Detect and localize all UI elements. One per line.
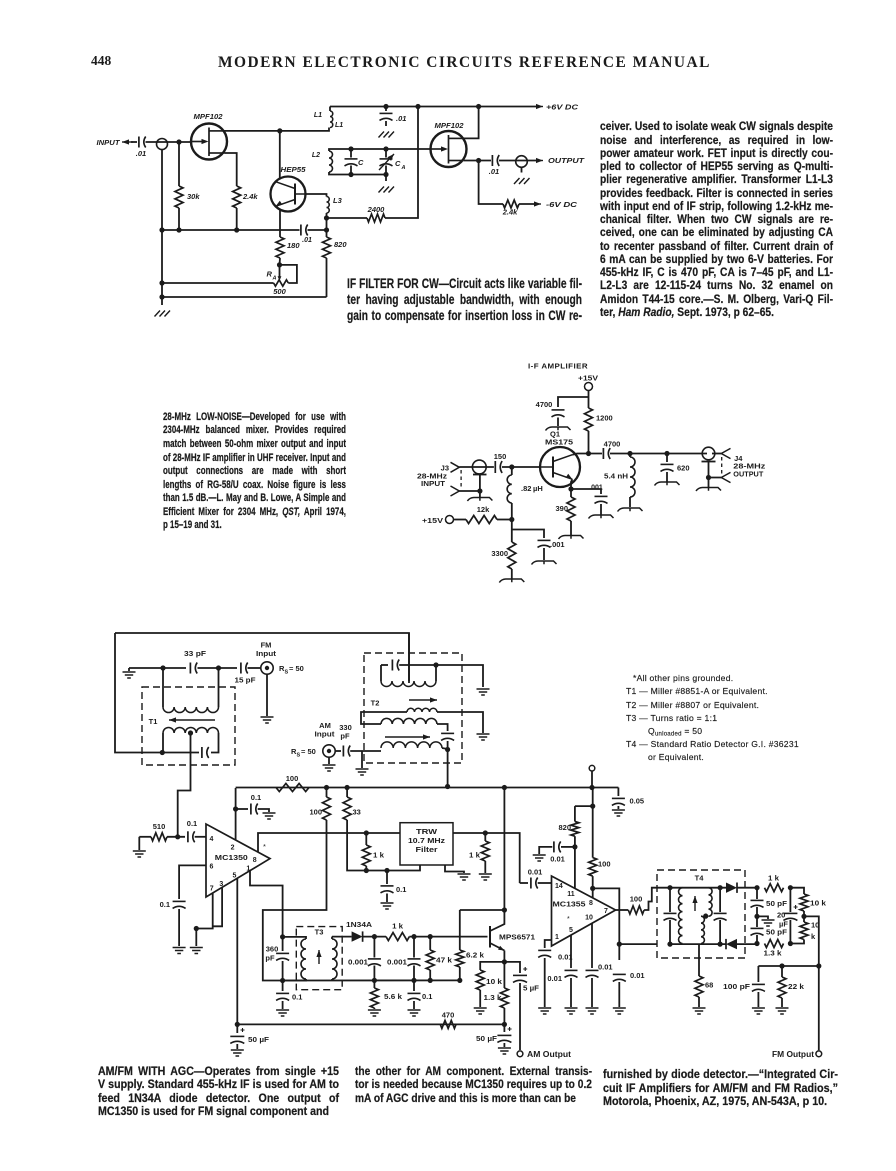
svg-text:33: 33 <box>353 808 361 817</box>
svg-text:10 k: 10 k <box>486 977 503 986</box>
svg-text:1 k: 1 k <box>768 874 780 883</box>
svg-text:µH: µH <box>533 484 543 493</box>
svg-text:4: 4 <box>210 836 214 843</box>
svg-text:11: 11 <box>567 891 575 898</box>
svg-text:S: S <box>285 670 289 676</box>
svg-text:Filter: Filter <box>416 845 438 854</box>
svg-text:A: A <box>401 165 406 171</box>
svg-text:3: 3 <box>219 881 223 888</box>
svg-text:S: S <box>297 753 301 759</box>
svg-text:7: 7 <box>210 886 214 893</box>
svg-text:C: C <box>395 159 401 168</box>
svg-text:7: 7 <box>604 908 608 915</box>
svg-text:OUTPUT: OUTPUT <box>548 158 585 165</box>
svg-text:2.4k: 2.4k <box>502 208 518 217</box>
svg-text:5 µF: 5 µF <box>523 984 539 993</box>
svg-text:1.3 k: 1.3 k <box>764 949 783 958</box>
svg-text:L1: L1 <box>314 112 322 119</box>
svg-text:2.4k: 2.4k <box>242 192 258 201</box>
svg-text:2400: 2400 <box>367 205 386 214</box>
svg-text:1 k: 1 k <box>373 851 385 860</box>
svg-text:MPF102: MPF102 <box>435 121 465 130</box>
svg-text:50 µF: 50 µF <box>248 1035 269 1044</box>
svg-text:*: * <box>567 916 570 923</box>
svg-text:1.3 k: 1.3 k <box>484 993 503 1002</box>
svg-text:100 pF: 100 pF <box>723 982 750 991</box>
svg-text:MC1350: MC1350 <box>215 853 248 862</box>
svg-text:0.01: 0.01 <box>528 868 543 877</box>
svg-text:= 50: = 50 <box>289 664 304 673</box>
svg-text:MS175: MS175 <box>545 438 573 447</box>
svg-text:µF: µF <box>779 920 788 929</box>
svg-text:Input: Input <box>256 649 277 658</box>
svg-text:2: 2 <box>231 845 235 852</box>
svg-text:+15V: +15V <box>578 374 598 383</box>
svg-text:510: 510 <box>153 822 166 831</box>
svg-text:MPS6571: MPS6571 <box>499 933 535 942</box>
svg-text:5: 5 <box>232 873 236 880</box>
svg-text:.82: .82 <box>521 484 531 493</box>
svg-text:5.4 nH: 5.4 nH <box>604 472 628 481</box>
svg-text:= 50: = 50 <box>301 747 316 756</box>
svg-text:AM Output: AM Output <box>527 1050 571 1059</box>
svg-text:OUTPUT: OUTPUT <box>733 470 763 479</box>
svg-text:0.01: 0.01 <box>598 963 613 972</box>
svg-text:T3: T3 <box>315 928 324 937</box>
svg-text:INPUT: INPUT <box>421 479 445 488</box>
svg-text:1: 1 <box>555 934 559 941</box>
svg-text:8: 8 <box>589 900 593 907</box>
svg-text:15 pF: 15 pF <box>235 676 256 685</box>
svg-text:+15V: +15V <box>422 516 443 525</box>
svg-text:.01: .01 <box>302 237 312 244</box>
svg-text:INPUT: INPUT <box>97 138 121 147</box>
svg-text:0.001: 0.001 <box>348 958 368 967</box>
svg-text:.001: .001 <box>589 485 603 492</box>
svg-text:T4: T4 <box>695 874 705 883</box>
svg-text:T1: T1 <box>149 717 158 726</box>
svg-text:MPF102: MPF102 <box>194 112 224 121</box>
svg-text:k: k <box>811 932 816 941</box>
svg-text:Input: Input <box>315 730 336 739</box>
svg-text:0.1: 0.1 <box>292 993 302 1002</box>
svg-text:.01: .01 <box>396 114 406 123</box>
svg-text:10: 10 <box>585 915 593 922</box>
svg-text:100: 100 <box>598 860 611 869</box>
svg-text:150: 150 <box>494 452 507 461</box>
svg-text:L3: L3 <box>333 196 343 205</box>
svg-text:-6V DC: -6V DC <box>546 202 578 209</box>
svg-text:5.6 k: 5.6 k <box>384 992 403 1001</box>
svg-text:33 pF: 33 pF <box>184 649 206 658</box>
svg-text:.01: .01 <box>489 167 499 176</box>
svg-text:10.7 MHz: 10.7 MHz <box>408 836 445 845</box>
svg-text:50 pF: 50 pF <box>766 899 787 908</box>
svg-text:100: 100 <box>286 774 299 783</box>
svg-text:.001: .001 <box>550 540 565 549</box>
svg-text:.01: .01 <box>136 149 146 158</box>
svg-text:I-F AMPLIFIER: I-F AMPLIFIER <box>528 362 588 371</box>
svg-text:4700: 4700 <box>604 440 621 449</box>
svg-text:+6V DC: +6V DC <box>546 105 579 112</box>
svg-text:0.01: 0.01 <box>550 855 565 864</box>
svg-text:HEP55: HEP55 <box>281 165 307 174</box>
svg-text:500: 500 <box>273 287 286 296</box>
svg-text:FM Output: FM Output <box>772 1050 814 1059</box>
svg-text:0.1: 0.1 <box>396 885 406 894</box>
svg-text:*: * <box>263 842 266 851</box>
svg-text:50 µF: 50 µF <box>476 1034 497 1043</box>
svg-text:5: 5 <box>569 927 573 934</box>
svg-text:470: 470 <box>442 1011 455 1020</box>
svg-text:100: 100 <box>309 808 322 817</box>
svg-text:1 k: 1 k <box>392 921 404 930</box>
svg-text:820: 820 <box>334 240 347 249</box>
svg-text:0.01: 0.01 <box>630 971 645 980</box>
svg-text:22 k: 22 k <box>788 982 805 991</box>
svg-text:4700: 4700 <box>536 400 553 409</box>
svg-text:A: A <box>272 276 277 282</box>
svg-text:0.001: 0.001 <box>387 958 407 967</box>
svg-text:1 k: 1 k <box>469 851 481 860</box>
svg-text:1200: 1200 <box>596 414 613 423</box>
svg-text:TRW: TRW <box>416 827 437 836</box>
svg-text:L1: L1 <box>335 122 343 129</box>
svg-text:0.1: 0.1 <box>160 900 170 909</box>
svg-text:T2: T2 <box>371 699 380 708</box>
svg-text:30k: 30k <box>187 192 200 201</box>
svg-text:MC1355: MC1355 <box>553 900 586 909</box>
svg-text:390: 390 <box>555 504 568 513</box>
svg-text:0.01: 0.01 <box>547 974 562 983</box>
svg-text:68: 68 <box>705 981 713 990</box>
svg-text:10 k: 10 k <box>810 899 827 908</box>
svg-text:pF: pF <box>340 732 350 741</box>
svg-text:360: 360 <box>266 945 279 954</box>
svg-text:100: 100 <box>630 895 643 904</box>
svg-text:L2: L2 <box>312 152 320 159</box>
svg-text:820: 820 <box>558 823 571 832</box>
svg-text:14: 14 <box>555 883 563 890</box>
svg-text:50 pF: 50 pF <box>766 928 787 937</box>
svg-text:0.1: 0.1 <box>422 992 432 1001</box>
svg-text:180: 180 <box>287 241 300 250</box>
svg-text:C: C <box>358 158 364 167</box>
svg-text:6.2 k: 6.2 k <box>466 951 485 960</box>
svg-text:0.1: 0.1 <box>251 793 261 802</box>
svg-text:47 k: 47 k <box>436 956 453 965</box>
svg-text:8: 8 <box>253 857 257 864</box>
svg-text:20: 20 <box>777 911 785 920</box>
svg-text:0.05: 0.05 <box>630 797 645 806</box>
svg-text:1N34A: 1N34A <box>346 920 373 929</box>
svg-text:620: 620 <box>677 464 690 473</box>
svg-text:12k: 12k <box>477 505 490 514</box>
svg-text:0.1: 0.1 <box>187 819 197 828</box>
svg-text:6: 6 <box>210 864 214 871</box>
svg-text:3300: 3300 <box>491 549 508 558</box>
svg-text:pF: pF <box>265 954 275 963</box>
